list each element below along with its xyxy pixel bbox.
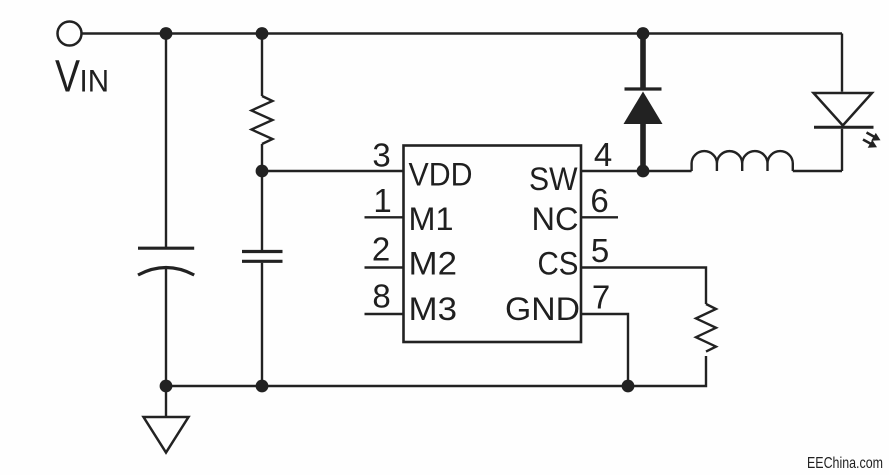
svg-text:7: 7	[592, 279, 610, 316]
ground	[144, 386, 189, 453]
resistor R1	[252, 96, 273, 144]
svg-text:8: 8	[372, 278, 390, 315]
wire R1 to node	[261, 144, 263, 171]
svg-text:3: 3	[372, 137, 390, 174]
svg-text:CS: CS	[538, 246, 579, 282]
svg-text:V: V	[55, 51, 80, 102]
wire top rail	[82, 32, 843, 34]
wire R1 upper lead	[261, 34, 263, 97]
resistor R2	[696, 304, 716, 352]
wire CS pin 5	[581, 268, 706, 305]
node SW junction	[637, 165, 650, 178]
wire pin 2 stub	[365, 266, 404, 268]
wire pin 6 stub	[581, 216, 618, 218]
wire LED lower lead	[841, 129, 843, 171]
input terminal VIN	[58, 22, 82, 46]
svg-text:SW: SW	[529, 161, 578, 197]
wire bottom rail	[166, 356, 706, 386]
wire C1 upper lead	[165, 34, 167, 249]
wire C2 lower lead	[261, 263, 263, 386]
capacitor C1	[138, 248, 194, 275]
node junction bottom-gnd	[622, 380, 635, 393]
svg-text:M1: M1	[409, 201, 454, 237]
svg-text:M3: M3	[409, 291, 458, 327]
node junction bottom-mid	[256, 380, 269, 393]
node VDD junction	[256, 165, 269, 178]
svg-text:2: 2	[372, 231, 390, 268]
svg-text:IN: IN	[80, 63, 110, 99]
svg-text:M2: M2	[409, 246, 458, 282]
wire GND pin 7	[581, 314, 628, 386]
svg-text:GND: GND	[505, 291, 580, 327]
LED D2	[814, 93, 881, 148]
wire VDD pin 3	[262, 170, 404, 172]
svg-text:6: 6	[590, 182, 608, 219]
node junction top-diode	[637, 27, 650, 40]
wire inductor to LED	[793, 170, 842, 172]
node junction top-left	[160, 27, 173, 40]
wire SW pin 4	[581, 170, 692, 172]
wire LED upper lead	[841, 34, 843, 92]
svg-text:5: 5	[591, 232, 609, 269]
svg-text:1: 1	[373, 182, 391, 219]
svg-text:VDD: VDD	[409, 157, 473, 193]
svg-text:NC: NC	[532, 201, 579, 237]
svg-text:EEChina.com: EEChina.com	[807, 455, 883, 472]
wire pin 8 stub	[365, 313, 404, 315]
op-amp U1	[404, 146, 582, 343]
capacitor C2	[242, 252, 283, 262]
diode D1	[624, 34, 663, 172]
wire C1 lower lead	[165, 269, 167, 387]
wire C2 upper lead	[261, 171, 263, 250]
inductor L1	[692, 151, 793, 171]
svg-text:4: 4	[594, 136, 612, 173]
node junction top-mid	[256, 27, 269, 40]
node junction bottom-left	[160, 380, 173, 393]
wire pin 1 stub	[365, 216, 404, 218]
